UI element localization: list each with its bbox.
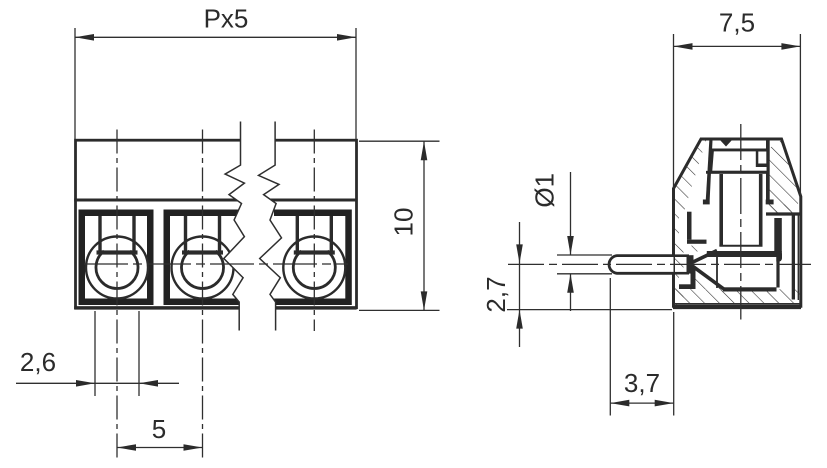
terminal 1 centreline xyxy=(116,130,118,459)
terminal 3 internals xyxy=(283,216,345,299)
plate right end J corner xyxy=(776,251,782,262)
funnel lower hatch xyxy=(691,267,723,289)
front view body outline xyxy=(76,140,357,308)
svg-text:2,7: 2,7 xyxy=(481,276,511,312)
screw slot notch in top edge xyxy=(720,140,733,147)
svg-text:Px5: Px5 xyxy=(204,4,249,34)
screw head window frame xyxy=(756,149,770,167)
washer line xyxy=(719,245,762,247)
lower pocket bottom bar xyxy=(679,284,696,289)
dimension 2,7 xyxy=(481,222,672,347)
terminal 3 centreline xyxy=(313,130,315,332)
screw shaft right wall xyxy=(759,174,763,246)
outer wall inner line xyxy=(797,216,799,301)
svg-text:7,5: 7,5 xyxy=(719,7,755,37)
horizontal centreline across terminals xyxy=(84,263,348,265)
terminal 1 internals xyxy=(86,216,148,299)
dimension Px5 xyxy=(75,4,356,140)
right wall top line xyxy=(766,212,800,215)
terminal 2 internals xyxy=(172,216,234,299)
svg-text:5: 5 xyxy=(152,414,166,444)
break whiteout between zigzags xyxy=(224,122,282,331)
screw head window xyxy=(758,152,766,164)
upper pocket right wall xyxy=(687,212,692,240)
svg-text:Ø1: Ø1 xyxy=(530,173,560,208)
bottom plate top line xyxy=(674,303,800,305)
dimension 5 xyxy=(117,414,203,451)
funnel lower diagonal xyxy=(691,265,724,289)
nut plate xyxy=(707,251,782,257)
pin centreline xyxy=(508,263,811,265)
body bottom thick line xyxy=(74,306,356,309)
dimension diameter 1 xyxy=(530,172,613,311)
right shoulder hatch xyxy=(766,204,792,212)
terminal 3 square (open left, cut by break) xyxy=(274,210,352,306)
dimension 7,5 xyxy=(674,7,801,196)
pin hole top edge xyxy=(674,254,690,257)
terminal 1 square xyxy=(79,210,154,306)
svg-text:2,6: 2,6 xyxy=(20,347,56,377)
bottom band hatch xyxy=(675,289,800,303)
wire cavity bottom bar xyxy=(723,287,777,291)
break line right zigzag xyxy=(259,122,282,331)
funnel upper diagonal xyxy=(691,251,717,264)
break line left zigzag xyxy=(224,122,245,331)
funnel tip block xyxy=(687,255,694,273)
svg-text:10: 10 xyxy=(389,208,419,237)
sleeve left foot xyxy=(703,200,710,205)
sleeve right foot xyxy=(766,200,774,205)
right upper bar xyxy=(774,218,782,253)
right inner wall xyxy=(792,216,795,300)
screw shaft left wall xyxy=(719,174,723,246)
right wedge hatch xyxy=(766,141,800,213)
svg-text:3,7: 3,7 xyxy=(624,368,660,398)
left wall hatch xyxy=(675,139,707,305)
upper pocket bottom bar xyxy=(687,240,707,244)
cavity left line xyxy=(716,257,718,288)
funnel upper hatch xyxy=(692,244,704,251)
cage right wall xyxy=(776,257,779,288)
lower pocket white xyxy=(679,269,691,285)
head bottom line xyxy=(706,171,770,174)
upper pocket white xyxy=(679,214,687,240)
sleeve left wall xyxy=(706,141,713,200)
solder pin xyxy=(609,256,673,274)
side view vertical centreline xyxy=(740,124,742,320)
screw head xyxy=(711,150,768,172)
pin hole bottom edge xyxy=(674,272,690,275)
dimension 10 xyxy=(359,141,440,310)
terminal 2 centreline xyxy=(202,130,204,459)
terminal 2 square (open right, cut by break) xyxy=(164,210,244,306)
lower pocket right wall xyxy=(691,269,696,289)
dimension 2,6 xyxy=(16,311,179,396)
side body outline xyxy=(674,139,801,306)
body divider line xyxy=(74,199,356,202)
sleeve right wall xyxy=(766,141,770,200)
dimension 3,7 xyxy=(610,278,673,416)
side body bottom edge xyxy=(673,306,801,309)
